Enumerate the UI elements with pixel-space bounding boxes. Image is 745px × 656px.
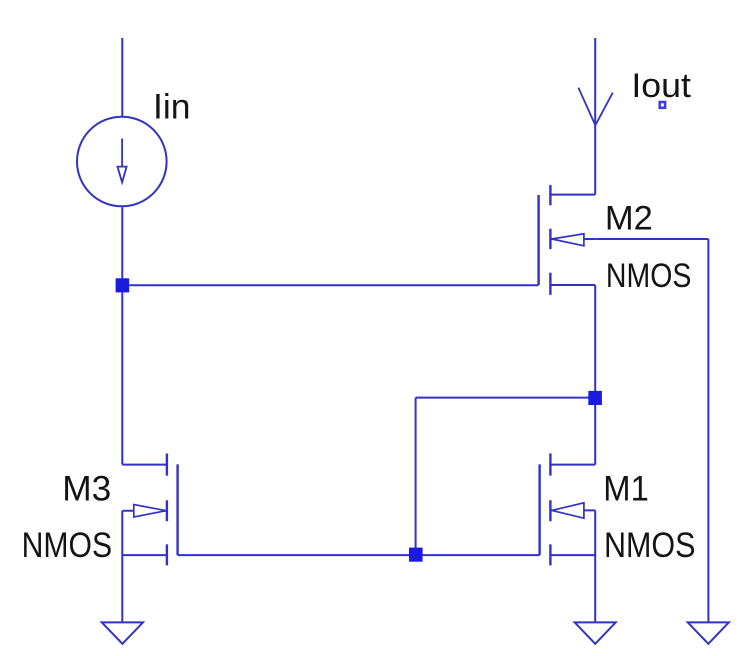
wire node C up to node B level (415, 398, 417, 555)
svg-text:NMOS: NMOS (604, 526, 696, 565)
svg-text:M1: M1 (603, 469, 649, 508)
wire top feed to current source (121, 38, 123, 116)
svg-text:NMOS: NMOS (22, 526, 113, 565)
wire current source to node A (121, 207, 123, 278)
svg-text:Iout: Iout (631, 67, 691, 105)
wire M2 bulk to right rail (595, 238, 708, 240)
transistor M1 (540, 454, 596, 566)
svg-text:M2: M2 (605, 199, 653, 237)
svg-text:Iin: Iin (153, 88, 191, 127)
node B junction (588, 391, 602, 405)
transistor M2 (539, 185, 596, 295)
current source I1 (Iin) (77, 117, 167, 207)
node A junction (116, 278, 130, 292)
svg-text:M3: M3 (62, 469, 111, 508)
wire node A to M2 gate (129, 284, 538, 286)
wire right rail down to ground (707, 239, 709, 622)
ground (below M1) (575, 622, 616, 643)
Iout arrow (578, 88, 612, 126)
node C junction (409, 548, 423, 562)
wire node A down to M3 drain (121, 292, 123, 464)
port marker (Iout) (660, 102, 665, 108)
wire M3 gate to M1 gate (178, 554, 540, 556)
wire M2 source to M1 drain (594, 285, 596, 465)
ground (right rail) (688, 622, 729, 643)
wire M2 drain up to Iout (594, 38, 596, 195)
transistor M3 (122, 454, 177, 566)
ground (below M3) (102, 622, 143, 643)
svg-text:NMOS: NMOS (606, 257, 692, 295)
wire across to node B (416, 397, 596, 399)
wire M3 source/bulk to ground (121, 511, 123, 623)
wire M1 source/bulk to ground (594, 510, 596, 622)
